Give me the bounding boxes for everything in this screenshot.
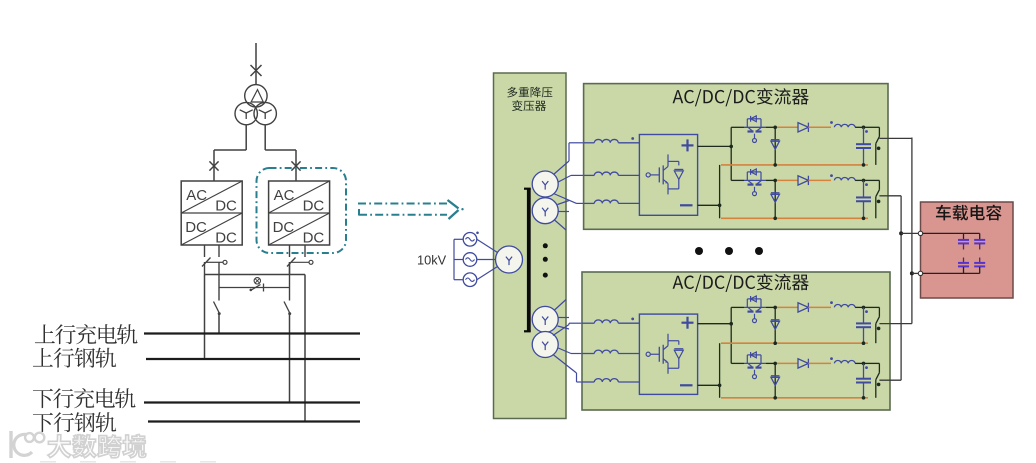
svg-text:DC: DC xyxy=(185,219,207,236)
svg-text:10kV: 10kV xyxy=(417,253,447,268)
svg-text:DC: DC xyxy=(273,219,295,236)
svg-text:AC: AC xyxy=(186,187,207,204)
svg-text:DC: DC xyxy=(303,198,325,215)
svg-text:DC: DC xyxy=(215,230,237,247)
svg-text:AC: AC xyxy=(274,187,295,204)
svg-text:DC: DC xyxy=(303,230,325,247)
svg-text:DC: DC xyxy=(215,198,237,215)
